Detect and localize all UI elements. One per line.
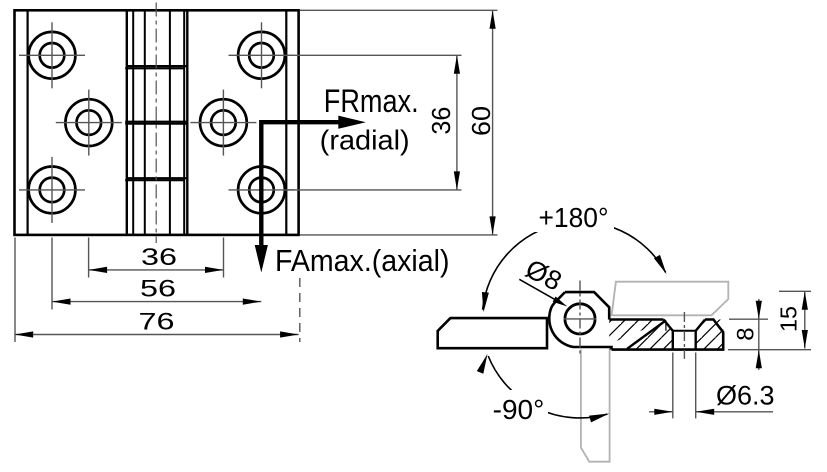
svg-text:15: 15 bbox=[776, 306, 802, 332]
svg-text:FRmax.: FRmax. bbox=[324, 83, 419, 119]
svg-text:FAmax.(axial): FAmax.(axial) bbox=[275, 244, 450, 278]
svg-text:Ø6.3: Ø6.3 bbox=[716, 381, 775, 411]
svg-text:-90°: -90° bbox=[493, 394, 545, 425]
svg-text:60: 60 bbox=[468, 106, 496, 136]
svg-text:36: 36 bbox=[141, 244, 177, 271]
svg-text:+180°: +180° bbox=[539, 202, 609, 233]
svg-text:8: 8 bbox=[733, 327, 760, 340]
svg-text:56: 56 bbox=[140, 276, 176, 303]
svg-text:(radial): (radial) bbox=[320, 125, 410, 156]
svg-text:36: 36 bbox=[428, 107, 456, 135]
svg-text:76: 76 bbox=[139, 309, 175, 336]
